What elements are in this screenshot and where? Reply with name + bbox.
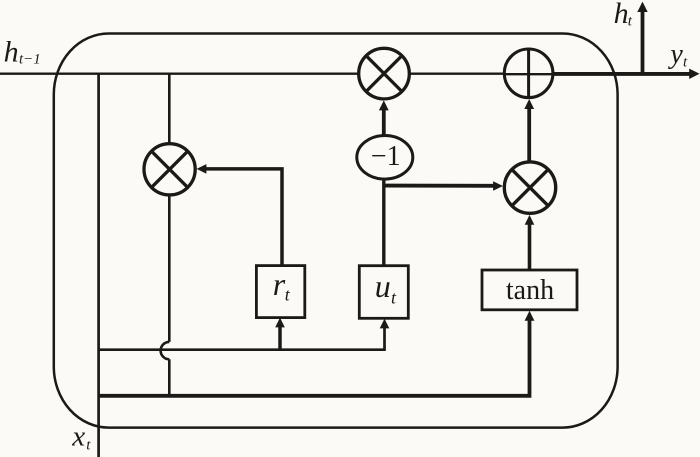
wire right multiply up into plus bbox=[527, 108, 531, 161]
wire branch arrow up into r_t bbox=[278, 326, 282, 351]
wire vertical below left multiply down to hop bbox=[168, 195, 171, 342]
svg-text:r: r bbox=[273, 266, 286, 302]
wire line A feeding gates bbox=[99, 327, 385, 350]
svg-text:h: h bbox=[4, 35, 19, 68]
minus-one ellipse bbox=[357, 136, 413, 180]
box u_t bbox=[359, 266, 408, 319]
wire output thick line to y_t bbox=[553, 72, 692, 76]
wire u_t output up to -1 ellipse bbox=[382, 179, 385, 267]
wire tanh output up into right multiply bbox=[528, 224, 532, 270]
plus vertical bar bbox=[527, 49, 530, 98]
arrowhead into r_t bottom bbox=[275, 318, 285, 328]
wire vertical into left multiply from top bbox=[168, 73, 171, 145]
wire vertical below hop to line B bbox=[168, 359, 171, 395]
svg-text:t−1: t−1 bbox=[19, 52, 41, 68]
top multiply circle bbox=[359, 48, 410, 99]
svg-text:h: h bbox=[614, 0, 629, 30]
arrowhead into right multiply bbox=[493, 181, 503, 191]
wire -1 output arrow up into top multiply bbox=[382, 109, 386, 135]
svg-text:tanh: tanh bbox=[506, 275, 554, 306]
cell boundary rounded box bbox=[54, 34, 618, 428]
plus circle bbox=[504, 49, 553, 98]
arrowhead into top multiply bbox=[379, 100, 389, 110]
wire branch from u_t line to right multiply bbox=[384, 184, 495, 188]
plus horizontal bar bbox=[504, 73, 553, 75]
arrowhead into tanh bottom bbox=[525, 311, 535, 321]
svg-text:x: x bbox=[71, 421, 85, 453]
arrowhead into u_t bottom bbox=[380, 319, 390, 329]
wire x_t vertical line bbox=[97, 73, 100, 457]
wire h(t-1) input line left segment bbox=[0, 72, 359, 74]
svg-text:t: t bbox=[683, 55, 688, 71]
arrowhead h_t bbox=[637, 2, 647, 12]
wire r_t output up and left into left multiply bbox=[205, 169, 282, 266]
svg-text:u: u bbox=[375, 268, 391, 304]
svg-text:t: t bbox=[86, 438, 91, 454]
right multiply circle bbox=[504, 162, 555, 213]
wire line B feeding tanh bbox=[99, 320, 530, 396]
arrowhead into left multiply bbox=[197, 164, 207, 174]
arrowhead into right multiply bottom bbox=[525, 215, 535, 225]
svg-text:t: t bbox=[628, 13, 633, 29]
svg-text:−1: −1 bbox=[371, 141, 401, 172]
arrowhead into plus bottom bbox=[524, 99, 534, 109]
box tanh bbox=[482, 270, 577, 310]
arrowhead y_t output bbox=[689, 69, 699, 79]
svg-text:y: y bbox=[667, 39, 683, 70]
right multiply X bbox=[512, 169, 548, 205]
left multiply circle bbox=[144, 144, 195, 195]
wire hop arc over line A bbox=[161, 342, 170, 359]
left multiply X bbox=[152, 151, 188, 187]
box r_t bbox=[256, 266, 304, 318]
wire between top multiply and plus bbox=[410, 72, 506, 74]
wire h_t branch up bbox=[641, 11, 645, 76]
top multiply X bbox=[366, 56, 402, 92]
